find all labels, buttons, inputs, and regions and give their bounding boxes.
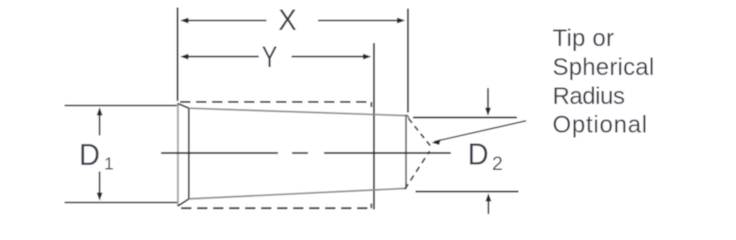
- wire: D1 dimension line lower segment: [99, 172, 101, 196]
- svg-text:Radius: Radius: [553, 83, 625, 110]
- leader line to tip: [435, 121, 527, 142]
- wire: D2 bottom extension line: [416, 191, 519, 193]
- svg-text:1: 1: [104, 154, 114, 174]
- pin small end top corner fillet: [406, 115, 409, 118]
- wire: Y dimension line right segment: [292, 56, 366, 58]
- wire: right extension line for Y dim: [373, 43, 375, 210]
- svg-text:2: 2: [492, 153, 503, 175]
- dashed envelope top-right corner stub: [370, 102, 372, 107]
- wire: X dimension line right segment: [318, 20, 400, 22]
- up arrow below D2 bottom extension: [487, 199, 489, 214]
- svg-text:Spherical: Spherical: [553, 54, 655, 81]
- wire: D1 dimension line upper segment: [99, 113, 101, 136]
- arrowhead right of Y dim: [363, 54, 371, 60]
- pin bottom-left chamfer slant: [178, 199, 189, 206]
- dashed envelope bottom line: [181, 207, 371, 209]
- down arrow above D2 top extension: [487, 88, 489, 111]
- wire: Y dimension line left segment: [186, 56, 259, 58]
- svg-text:Optional: Optional: [553, 112, 648, 139]
- dashed envelope top line: [180, 101, 371, 103]
- wire: D1 bottom extension line: [65, 202, 178, 204]
- svg-text:Y: Y: [262, 41, 278, 74]
- wire: left extension line for X and Y dims: [177, 8, 179, 102]
- svg-text:D: D: [79, 138, 100, 172]
- pin bottom taper edge: [189, 188, 406, 199]
- arrowhead of leader: [432, 139, 441, 145]
- arrowhead right of X dim: [397, 18, 405, 24]
- wire: X dimension line left segment: [186, 20, 267, 22]
- pin body left edge: [188, 108, 190, 199]
- dashed tip cone bottom line: [405, 151, 430, 189]
- svg-text:X: X: [278, 4, 297, 37]
- wire: D2 top extension line: [413, 117, 517, 119]
- dashed tip cone top line: [409, 119, 431, 146]
- wire: D1 top extension line: [65, 105, 178, 107]
- svg-text:Tip or: Tip or: [553, 25, 615, 52]
- dashed envelope bottom-right corner stub: [370, 204, 372, 209]
- arrowhead left of Y dim: [180, 54, 188, 60]
- centerline short middle dash: [292, 152, 308, 154]
- arrowhead bottom of D1 dim: [97, 193, 103, 201]
- pin top taper edge: [189, 108, 406, 115]
- arrowhead top of D1 dim: [97, 107, 103, 115]
- centerline long left segment: [161, 152, 278, 154]
- centerline long right segment: [324, 152, 451, 154]
- pin top-left chamfer slant: [178, 104, 189, 109]
- pin small end face: [405, 115, 407, 189]
- arrowhead left of X dim: [180, 18, 188, 24]
- pin left end face (outer rim, gray): [177, 103, 179, 206]
- wire: right extension line for X dim: [407, 9, 409, 113]
- svg-text:D: D: [468, 138, 489, 172]
